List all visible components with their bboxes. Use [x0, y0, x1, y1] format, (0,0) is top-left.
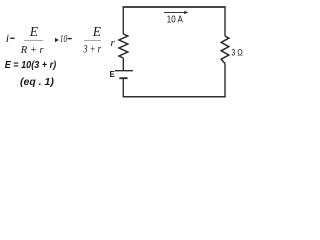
equals dash after 10: [68, 38, 72, 40]
svg-text:R + r: R + r: [20, 45, 45, 56]
svg-text:3 Ω: 3 Ω: [231, 48, 242, 59]
svg-text:E: E: [92, 24, 102, 39]
svg-text:10: 10: [60, 34, 68, 45]
wire right lower: [224, 64, 226, 98]
resistor r (left branch): [119, 34, 128, 58]
implies arrowhead: [55, 38, 59, 42]
fraction bar 1: [24, 40, 43, 42]
svg-text:E = 10(3 + r): E = 10(3 + r): [5, 60, 57, 71]
current arrow 10 A: [164, 12, 185, 14]
svg-text:10 A: 10 A: [167, 15, 183, 26]
svg-text:r: r: [111, 37, 116, 49]
svg-text:(eq . 1): (eq . 1): [20, 76, 54, 88]
resistor 3 ohm (right branch): [221, 36, 229, 64]
svg-text:3 + r: 3 + r: [83, 42, 101, 56]
svg-text:E: E: [29, 24, 39, 39]
wire right upper: [224, 7, 226, 37]
svg-text:i: i: [6, 31, 9, 45]
wire between resistor r and battery: [122, 58, 124, 70]
wire bottom: [123, 96, 226, 98]
battery E (long and short plates): [115, 70, 133, 72]
fraction bar 2: [84, 40, 101, 42]
wire left lower (battery to bottom): [122, 79, 124, 98]
svg-text:E: E: [110, 70, 116, 79]
wire left upper: [122, 7, 124, 35]
equals dash after i: [10, 37, 14, 39]
wire top: [123, 6, 226, 8]
